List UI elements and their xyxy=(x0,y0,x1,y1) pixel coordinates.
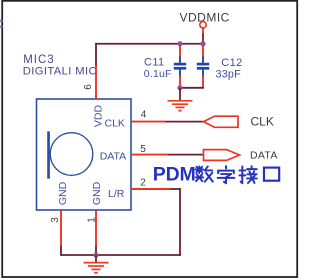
svg-text:PDM: PDM xyxy=(153,164,196,186)
CJK char kou (口) xyxy=(264,168,279,181)
svg-text:2: 2 xyxy=(140,178,146,189)
svg-text:C11: C11 xyxy=(144,57,165,69)
svg-text:5: 5 xyxy=(140,144,146,155)
wire top net vertical to VDD pin xyxy=(95,43,97,66)
junction dot bottom net xyxy=(93,252,98,257)
pin 1 stub GND xyxy=(95,211,97,246)
wire ground stem G1 xyxy=(179,88,181,100)
off-page connector DATA xyxy=(204,150,240,161)
ground G1 xyxy=(168,101,193,111)
wire DATA net xyxy=(168,154,204,156)
svg-text:VDD: VDD xyxy=(92,104,104,127)
wire ground stem G2 xyxy=(95,255,97,262)
svg-text:DATA: DATA xyxy=(250,150,278,162)
left edge tick marks xyxy=(0,20,3,28)
svg-text:0.1uF: 0.1uF xyxy=(144,68,172,80)
CJK char jie (接) xyxy=(239,166,256,183)
svg-text:CLK: CLK xyxy=(251,115,274,129)
power terminal circle VDDMIC xyxy=(200,22,206,28)
capacitor C12 xyxy=(197,45,209,88)
svg-text:L/R: L/R xyxy=(108,188,125,200)
svg-text:GND: GND xyxy=(91,181,103,205)
off-page connector CLK xyxy=(204,116,239,127)
svg-text:DATA: DATA xyxy=(100,151,126,163)
wire GND1 maroon segment xyxy=(95,246,97,256)
junction dot at C11 bottom xyxy=(177,85,182,90)
component body U-MIC3 box xyxy=(37,99,132,210)
pin 3 stub GND xyxy=(60,211,62,246)
junction dot at C12 top xyxy=(200,41,205,46)
svg-text:33pF: 33pF xyxy=(216,68,242,80)
wire top net horizontal xyxy=(96,43,204,45)
pin 2 stub L/R xyxy=(131,188,171,190)
svg-text:CLK: CLK xyxy=(105,118,125,130)
wire bottom net horizontal xyxy=(61,254,181,256)
svg-text:3: 3 xyxy=(50,217,61,223)
wire VDDMIC stem maroon xyxy=(202,34,204,44)
wire L/R net horizontal xyxy=(171,188,181,190)
pin 4 stub CLK xyxy=(131,121,166,123)
wire CLK net xyxy=(166,121,205,123)
pin 5 stub DATA xyxy=(131,154,168,156)
microphone symbol circle xyxy=(50,133,93,176)
capacitor C11 xyxy=(174,45,186,88)
svg-text:6: 6 xyxy=(83,84,94,90)
wire VDDMIC stem red xyxy=(202,28,204,33)
microphone symbol bar xyxy=(47,131,50,178)
ground G2 xyxy=(84,263,109,273)
CJK char zi (字) xyxy=(218,166,235,183)
wire L/R net vertical xyxy=(179,188,181,256)
pin 6 stub VDD xyxy=(95,66,97,100)
wire GND3 maroon segment xyxy=(60,246,62,256)
svg-text:1: 1 xyxy=(86,217,97,223)
svg-text:C12: C12 xyxy=(221,57,242,69)
svg-text:DIGITALI MIC: DIGITALI MIC xyxy=(23,66,97,78)
junction dot at C11 top xyxy=(177,41,182,46)
svg-text:MIC3: MIC3 xyxy=(23,54,54,66)
CJK char shu (数) xyxy=(195,166,212,181)
svg-text:4: 4 xyxy=(141,110,147,121)
svg-text:GND: GND xyxy=(57,181,69,205)
wire capacitor bottom net xyxy=(180,87,204,89)
